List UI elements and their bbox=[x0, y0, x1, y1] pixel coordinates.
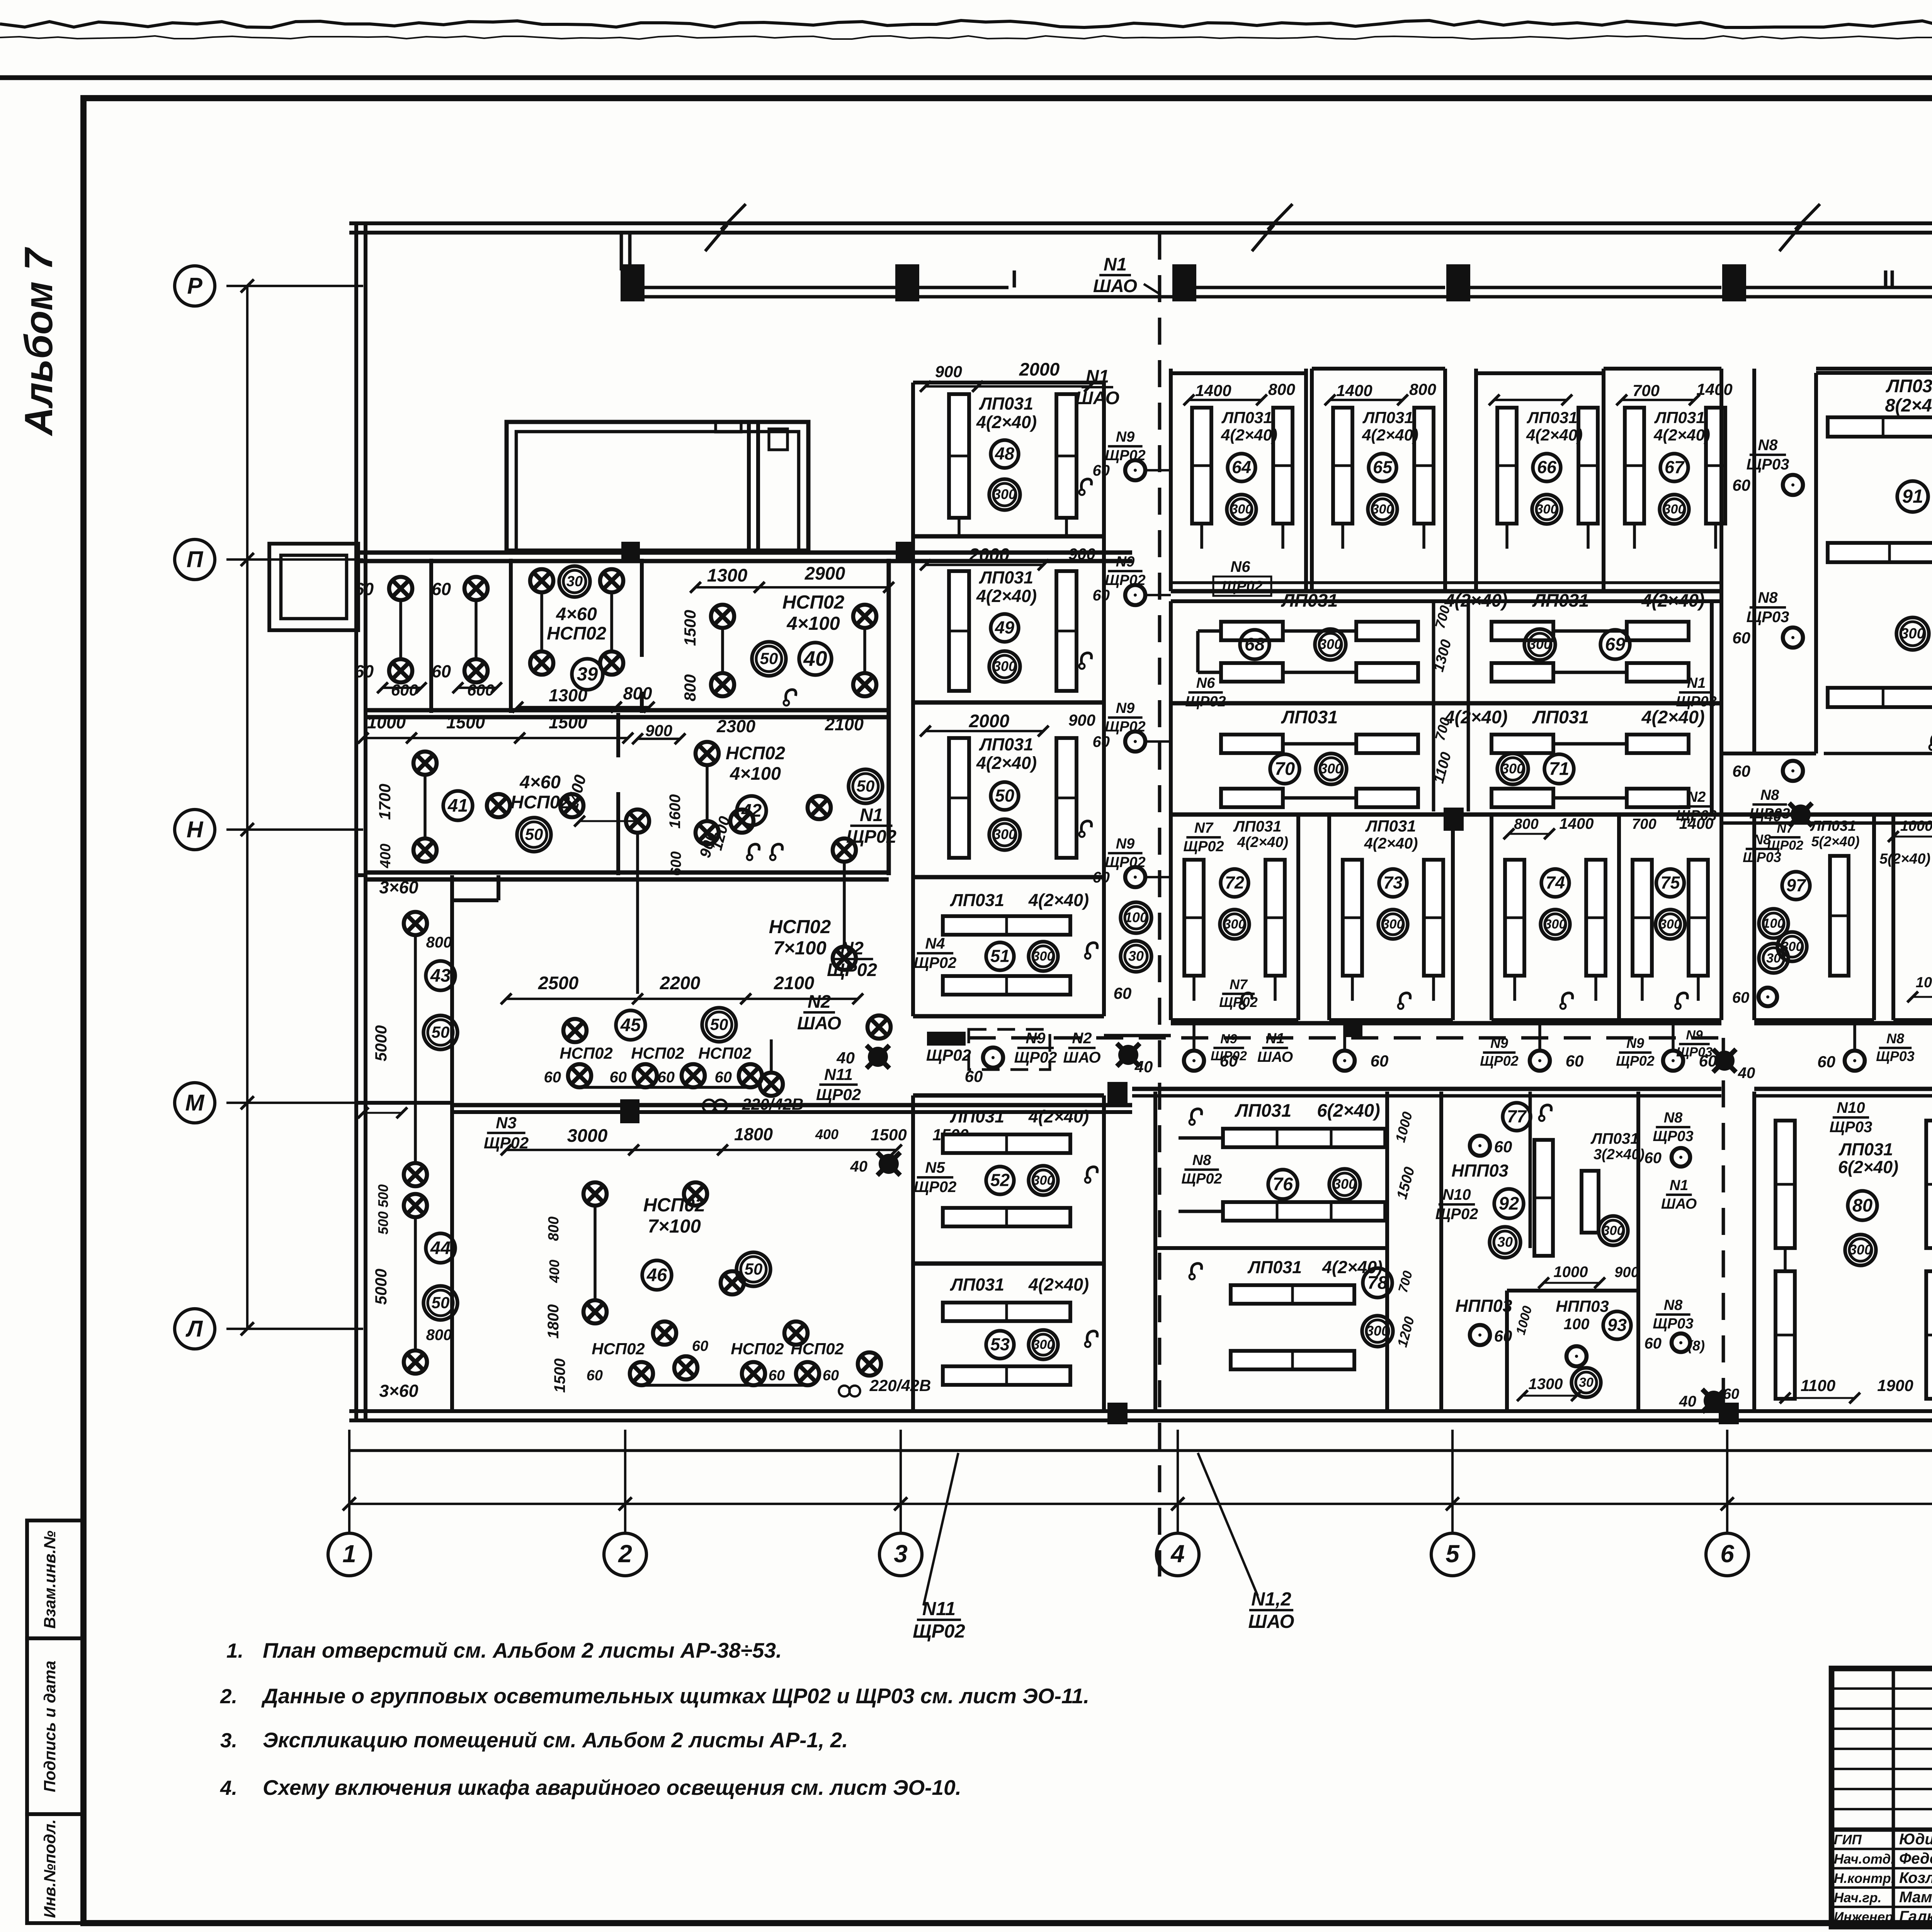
wall column bbox=[1172, 264, 1196, 301]
svg-text:71: 71 bbox=[1549, 758, 1569, 779]
svg-text:2: 2 bbox=[618, 1540, 632, 1568]
svg-text:План отверстий см. Альбом 2: План отверстий см. Альбом 2 листы АР-38÷… bbox=[263, 1638, 782, 1662]
row axis П bbox=[226, 558, 363, 561]
svg-text:69: 69 bbox=[1605, 634, 1625, 654]
room 46 lamps lower bbox=[583, 1300, 607, 1323]
corridor right lamps N8 bbox=[1845, 1051, 1865, 1071]
svg-text:N7: N7 bbox=[1230, 976, 1248, 992]
svg-text:30: 30 bbox=[1128, 948, 1144, 964]
svg-text:ЛП031: ЛП031 bbox=[950, 1275, 1004, 1294]
svg-text:3×60: 3×60 bbox=[379, 878, 418, 897]
svg-text:ЛП031: ЛП031 bbox=[1281, 707, 1338, 727]
svg-text:4(2×40): 4(2×40) bbox=[976, 412, 1037, 432]
room 48 fixtures bbox=[949, 394, 969, 518]
svg-text:5(2×40): 5(2×40) bbox=[1879, 851, 1930, 867]
svg-text:N9: N9 bbox=[1686, 1028, 1703, 1043]
svg-text:300: 300 bbox=[1544, 917, 1566, 932]
row axis М bbox=[226, 1102, 363, 1104]
svg-text:4×100: 4×100 bbox=[786, 613, 840, 634]
svg-text:300: 300 bbox=[1501, 761, 1524, 777]
svg-text:ЛП031: ЛП031 bbox=[950, 890, 1004, 910]
svg-text:ЩР02: ЩР02 bbox=[816, 1085, 861, 1104]
svg-text:Нач.гр.: Нач.гр. bbox=[1834, 1890, 1881, 1905]
svg-text:50: 50 bbox=[857, 777, 875, 795]
axis 1 bbox=[348, 1430, 350, 1533]
svg-text:60: 60 bbox=[965, 1067, 983, 1085]
svg-text:300: 300 bbox=[993, 658, 1016, 674]
svg-text:30: 30 bbox=[1579, 1375, 1594, 1390]
svg-text:78: 78 bbox=[1367, 1272, 1388, 1293]
svg-text:800: 800 bbox=[426, 1327, 452, 1344]
svg-text:ЛП031: ЛП031 bbox=[979, 735, 1033, 754]
left margin stamp boxes bbox=[27, 1520, 83, 1638]
room 40 lamps bbox=[711, 605, 734, 628]
room 68/69 top area bbox=[1169, 603, 1173, 703]
corridor lower wall bbox=[1132, 1087, 1721, 1091]
svg-text:80: 80 bbox=[1852, 1195, 1872, 1215]
entrance vestibule on row П bbox=[269, 544, 358, 630]
svg-text:49: 49 bbox=[995, 618, 1014, 638]
svg-text:400: 400 bbox=[546, 1260, 562, 1283]
vent chamber top-left double wall bbox=[507, 422, 808, 551]
svg-text:7×100: 7×100 bbox=[648, 1216, 701, 1237]
svg-text:65: 65 bbox=[1373, 457, 1393, 477]
svg-text:40: 40 bbox=[1134, 1058, 1153, 1076]
svg-text:Юдин: Юдин bbox=[1899, 1831, 1932, 1848]
wall left block right boundary x2300 bbox=[886, 713, 891, 875]
svg-text:N6: N6 bbox=[1230, 558, 1250, 575]
svg-text:НСП02: НСП02 bbox=[731, 1340, 784, 1358]
svg-text:60: 60 bbox=[1732, 762, 1750, 780]
room 77 bbox=[1529, 1092, 1532, 1248]
svg-text:N1: N1 bbox=[1266, 1031, 1285, 1047]
svg-text:1400: 1400 bbox=[1679, 815, 1714, 832]
duct band connector wall bbox=[620, 233, 623, 270]
svg-text:60: 60 bbox=[1645, 1335, 1662, 1352]
svg-text:1400: 1400 bbox=[1195, 381, 1231, 400]
svg-text:4.: 4. bbox=[220, 1777, 237, 1799]
room 76 walls bbox=[1153, 1092, 1157, 1411]
svg-text:1: 1 bbox=[342, 1540, 356, 1568]
svg-text:Схему включения шкафа авари: Схему включения шкафа аварийного освещен… bbox=[263, 1776, 961, 1799]
svg-text:700: 700 bbox=[1632, 816, 1656, 832]
svg-text:93: 93 bbox=[1607, 1315, 1627, 1335]
svg-text:2000: 2000 bbox=[969, 544, 1010, 565]
svg-text:60: 60 bbox=[658, 1069, 675, 1086]
axis 2 bbox=[624, 1430, 626, 1533]
svg-text:600: 600 bbox=[467, 681, 494, 699]
svg-text:НСП02: НСП02 bbox=[769, 917, 831, 937]
rooms 72-75 bottom walls bbox=[1171, 1018, 1298, 1022]
wall row П bbox=[356, 550, 1132, 554]
svg-text:ЛП031: ЛП031 bbox=[1365, 817, 1416, 835]
svg-text:ЛП031: ЛП031 bbox=[1810, 818, 1856, 834]
svg-text:НПП03: НПП03 bbox=[1556, 1297, 1609, 1315]
svg-text:ЛП031: ЛП031 bbox=[1526, 408, 1577, 427]
svg-text:НСП02: НСП02 bbox=[560, 1044, 613, 1062]
svg-text:60: 60 bbox=[1494, 1327, 1512, 1345]
svg-text:2200: 2200 bbox=[660, 973, 701, 993]
corridor dashed feeder N9 bbox=[969, 1036, 1723, 1040]
wall room 97 left bbox=[1752, 815, 1756, 1020]
svg-text:4(2×40): 4(2×40) bbox=[1362, 426, 1418, 444]
svg-text:70: 70 bbox=[1275, 758, 1295, 779]
svg-text:92: 92 bbox=[1499, 1193, 1519, 1213]
svg-text:4(2×40): 4(2×40) bbox=[1444, 707, 1507, 727]
svg-text:4(2×40): 4(2×40) bbox=[1364, 835, 1418, 852]
svg-text:4(2×40): 4(2×40) bbox=[1028, 1107, 1089, 1126]
svg-text:1400: 1400 bbox=[1336, 381, 1372, 400]
panel ЩР02 black bbox=[927, 1032, 966, 1046]
svg-text:100: 100 bbox=[1763, 916, 1785, 931]
svg-text:6: 6 bbox=[1720, 1540, 1734, 1568]
svg-text:НСП02: НСП02 bbox=[592, 1340, 645, 1358]
top wall break marks bbox=[705, 204, 746, 251]
svg-text:300: 300 bbox=[993, 486, 1016, 502]
title block signature grid bbox=[1892, 1668, 1895, 1927]
svg-text:ЩР02: ЩР02 bbox=[1219, 994, 1258, 1010]
svg-text:ЩР03: ЩР03 bbox=[1653, 1316, 1693, 1332]
svg-text:300: 300 bbox=[1320, 761, 1343, 777]
svg-text:1000: 1000 bbox=[367, 713, 406, 732]
svg-text:Галкин: Галкин bbox=[1899, 1908, 1932, 1925]
wall column bbox=[895, 264, 919, 301]
svg-text:1500: 1500 bbox=[681, 610, 699, 646]
room 51 walls bbox=[911, 877, 915, 1016]
svg-text:2300: 2300 bbox=[716, 716, 755, 736]
svg-text:60: 60 bbox=[1645, 1150, 1662, 1167]
svg-text:N1: N1 bbox=[1670, 1177, 1689, 1194]
wall room91 top bbox=[1816, 367, 1932, 371]
junction pillars bbox=[1107, 1082, 1128, 1106]
svg-text:40: 40 bbox=[850, 1158, 868, 1175]
svg-text:7×100: 7×100 bbox=[773, 938, 827, 959]
svg-text:75: 75 bbox=[1660, 873, 1680, 893]
axis 6 bbox=[1726, 1430, 1728, 1533]
svg-text:48: 48 bbox=[995, 444, 1014, 464]
svg-text:300: 300 bbox=[1231, 502, 1253, 517]
svg-text:60: 60 bbox=[587, 1367, 603, 1384]
svg-text:Н.контр.: Н.контр. bbox=[1834, 1871, 1895, 1886]
svg-text:900: 900 bbox=[1068, 711, 1095, 729]
pillar on wall 45-46 bbox=[620, 1099, 639, 1123]
svg-text:ЛП031: ЛП031 bbox=[1233, 818, 1282, 835]
svg-text:N11: N11 bbox=[922, 1599, 956, 1619]
svg-text:1100: 1100 bbox=[1801, 1376, 1835, 1395]
svg-text:Мамренко: Мамренко bbox=[1899, 1889, 1932, 1906]
svg-text:Инв.№подл.: Инв.№подл. bbox=[41, 1819, 59, 1918]
duct band lower wall bbox=[621, 295, 1932, 299]
svg-text:4: 4 bbox=[1170, 1540, 1185, 1568]
band bottom wall 39 bbox=[366, 708, 889, 712]
svg-text:ЩР02: ЩР02 bbox=[1435, 1206, 1478, 1223]
wall column bbox=[621, 264, 645, 301]
svg-text:N1: N1 bbox=[860, 804, 883, 825]
svg-text:3.: 3. bbox=[220, 1729, 237, 1752]
svg-text:ЛП031: ЛП031 bbox=[1654, 408, 1705, 427]
left outer wall bbox=[354, 223, 358, 1420]
svg-text:1500: 1500 bbox=[446, 713, 485, 732]
svg-text:4(2×40): 4(2×40) bbox=[1653, 426, 1710, 444]
svg-text:2100: 2100 bbox=[774, 973, 815, 993]
svg-text:60: 60 bbox=[610, 1069, 627, 1086]
svg-text:ШАО: ШАО bbox=[1248, 1611, 1294, 1632]
svg-text:ГИП: ГИП bbox=[1834, 1832, 1862, 1847]
svg-text:300: 300 bbox=[993, 827, 1016, 842]
svg-text:60: 60 bbox=[1732, 476, 1750, 494]
svg-text:1.: 1. bbox=[226, 1639, 243, 1662]
svg-text:1000: 1000 bbox=[1554, 1264, 1588, 1281]
svg-text:Л: Л bbox=[185, 1316, 203, 1342]
svg-text:100: 100 bbox=[1124, 910, 1148, 925]
axis 4 bbox=[1177, 1430, 1179, 1533]
sheet outer top line bbox=[0, 75, 1932, 80]
svg-text:3×60: 3×60 bbox=[379, 1381, 418, 1401]
row axis Л bbox=[226, 1328, 363, 1330]
room 45 bottom lamps row bbox=[568, 1064, 591, 1087]
corridor walls x=4455..4540 bbox=[1752, 369, 1756, 753]
room B lamps bbox=[464, 577, 488, 600]
axis 3 bbox=[900, 1430, 902, 1533]
svg-text:300: 300 bbox=[1536, 502, 1558, 517]
svg-text:N9: N9 bbox=[1116, 554, 1135, 570]
svg-text:800: 800 bbox=[426, 934, 452, 951]
svg-text:60: 60 bbox=[1093, 587, 1110, 604]
svg-text:N2: N2 bbox=[840, 938, 864, 958]
svg-text:N9: N9 bbox=[1220, 1032, 1237, 1046]
svg-text:300: 300 bbox=[1224, 917, 1246, 932]
svg-text:П: П bbox=[187, 547, 204, 572]
wall corridor x4540 upper bbox=[1752, 369, 1756, 753]
svg-text:ШАО: ШАО bbox=[1093, 276, 1137, 296]
svg-text:N10: N10 bbox=[1837, 1099, 1865, 1116]
svg-text:2500: 2500 bbox=[538, 973, 579, 993]
shaft walls 65|66 bbox=[1444, 373, 1447, 591]
axis 5 bbox=[1451, 1430, 1454, 1533]
svg-text:60: 60 bbox=[1093, 462, 1110, 479]
svg-text:N8: N8 bbox=[1758, 589, 1778, 606]
svg-text:1300: 1300 bbox=[1529, 1376, 1563, 1393]
svg-text:ШАО: ШАО bbox=[797, 1013, 841, 1033]
svg-text:N9: N9 bbox=[1116, 700, 1135, 716]
svg-text:39: 39 bbox=[577, 664, 598, 685]
svg-text:Нач.отд.: Нач.отд. bbox=[1834, 1852, 1895, 1867]
svg-text:50: 50 bbox=[710, 1015, 728, 1034]
svg-text:72: 72 bbox=[1225, 873, 1244, 893]
svg-text:300: 300 bbox=[1382, 917, 1404, 932]
svg-text:ЛП031: ЛП031 bbox=[1221, 408, 1272, 427]
svg-text:60: 60 bbox=[354, 579, 374, 599]
svg-text:НСП02: НСП02 bbox=[631, 1044, 684, 1062]
svg-text:300: 300 bbox=[1602, 1223, 1624, 1238]
svg-text:ШАО: ШАО bbox=[1661, 1196, 1697, 1212]
svg-text:60: 60 bbox=[1371, 1052, 1389, 1070]
svg-text:40: 40 bbox=[1738, 1065, 1755, 1082]
svg-text:N3: N3 bbox=[496, 1114, 517, 1132]
svg-text:46: 46 bbox=[646, 1264, 667, 1285]
svg-text:НСП02: НСП02 bbox=[643, 1195, 706, 1216]
svg-text:67: 67 bbox=[1665, 457, 1685, 477]
room 73 bbox=[1343, 860, 1362, 976]
svg-text:(8): (8) bbox=[1688, 1338, 1705, 1354]
svg-text:700: 700 bbox=[1633, 381, 1660, 400]
room 97 walls bbox=[1752, 815, 1756, 1020]
svg-text:Экспликацию помещений см. А: Экспликацию помещений см. Альбом 2 листы… bbox=[263, 1728, 848, 1752]
svg-text:800: 800 bbox=[623, 684, 652, 703]
svg-text:4×100: 4×100 bbox=[730, 763, 781, 784]
svg-text:800: 800 bbox=[1514, 816, 1538, 832]
svg-text:500: 500 bbox=[375, 1211, 391, 1235]
svg-text:300: 300 bbox=[1528, 636, 1551, 652]
svg-text:60: 60 bbox=[354, 662, 374, 681]
room 39 lux 30 bbox=[559, 566, 590, 597]
svg-text:N8: N8 bbox=[1758, 437, 1778, 454]
wall 68/70 bbox=[1171, 701, 1721, 705]
svg-text:800: 800 bbox=[546, 1216, 562, 1241]
svg-text:N9: N9 bbox=[1116, 836, 1135, 852]
corridor lux circles bbox=[1121, 902, 1151, 933]
wall verticals bottom right block bbox=[1752, 1092, 1756, 1411]
room 92 НПП03 bbox=[1439, 1092, 1443, 1411]
wall column bbox=[1722, 264, 1746, 301]
svg-text:300: 300 bbox=[1333, 1176, 1356, 1192]
svg-text:1000: 1000 bbox=[1900, 818, 1932, 834]
left band partitions bbox=[429, 559, 433, 713]
svg-text:N7: N7 bbox=[1194, 820, 1214, 836]
svg-text:1900: 1900 bbox=[1877, 1376, 1913, 1395]
svg-text:ЛП031: ЛП031 bbox=[950, 1107, 1004, 1126]
svg-text:220/42В: 220/42В bbox=[869, 1376, 931, 1395]
room 50 walls bbox=[911, 702, 915, 877]
svg-text:ЩР03: ЩР03 bbox=[1653, 1128, 1693, 1145]
svg-text:60: 60 bbox=[432, 579, 451, 599]
svg-text:ЩР02: ЩР02 bbox=[1183, 838, 1224, 855]
svg-text:2900: 2900 bbox=[804, 563, 845, 583]
svg-text:N2: N2 bbox=[1687, 789, 1706, 805]
svg-text:1400: 1400 bbox=[1560, 815, 1594, 832]
svg-text:ЩР02: ЩР02 bbox=[484, 1134, 529, 1152]
svg-text:ЩР02: ЩР02 bbox=[1222, 578, 1262, 595]
svg-text:60: 60 bbox=[1093, 733, 1110, 750]
room 72 bbox=[1184, 860, 1204, 976]
svg-text:1700: 1700 bbox=[376, 784, 394, 820]
svg-text:300: 300 bbox=[1781, 939, 1803, 954]
svg-text:N11: N11 bbox=[824, 1065, 853, 1083]
rooms 64-67 top walls bbox=[1171, 371, 1306, 375]
strip divider bbox=[356, 1101, 452, 1105]
svg-text:900: 900 bbox=[1614, 1264, 1639, 1281]
row axis datum line bbox=[246, 286, 248, 1329]
svg-text:800: 800 bbox=[1409, 380, 1436, 398]
svg-text:N1: N1 bbox=[1104, 254, 1127, 274]
vent chamber internal wall bbox=[747, 422, 751, 551]
room A lamps bbox=[389, 577, 412, 600]
svg-text:2000: 2000 bbox=[1019, 359, 1060, 379]
svg-text:52: 52 bbox=[990, 1170, 1010, 1190]
svg-text:60: 60 bbox=[715, 1069, 732, 1086]
svg-text:ЩР02: ЩР02 bbox=[1616, 1053, 1655, 1069]
svg-text:2000: 2000 bbox=[969, 711, 1010, 731]
svg-text:60: 60 bbox=[692, 1338, 708, 1354]
svg-text:N6: N6 bbox=[1196, 675, 1215, 691]
svg-text:300: 300 bbox=[1032, 949, 1054, 964]
svg-text:N1: N1 bbox=[1687, 675, 1706, 691]
svg-text:5000: 5000 bbox=[372, 1269, 390, 1304]
room 41 bbox=[413, 752, 437, 775]
svg-text:50: 50 bbox=[432, 1023, 450, 1041]
svg-text:4(2×40): 4(2×40) bbox=[1028, 890, 1089, 910]
wall column bbox=[1446, 264, 1470, 301]
dark lamp corridor right bbox=[1714, 1051, 1735, 1071]
svg-text:ЩР02: ЩР02 bbox=[914, 954, 957, 971]
svg-text:66: 66 bbox=[1537, 457, 1557, 477]
svg-text:НПП03: НПП03 bbox=[1455, 1296, 1512, 1316]
svg-text:1300: 1300 bbox=[549, 685, 587, 705]
band 41-42 bottom wall bbox=[366, 870, 889, 874]
room 45 lamps lower bbox=[563, 1019, 587, 1042]
feeder crossing lines mid bbox=[1104, 1034, 1171, 1037]
svg-text:ЛП031: ЛП031 bbox=[1247, 1257, 1302, 1277]
room 52 walls bbox=[911, 1095, 915, 1264]
svg-text:Федотов: Федотов bbox=[1899, 1850, 1932, 1867]
svg-text:300: 300 bbox=[1319, 636, 1342, 652]
svg-text:74: 74 bbox=[1546, 873, 1565, 893]
svg-text:51: 51 bbox=[990, 946, 1010, 966]
rooms 72-75 top wall bbox=[1171, 812, 1721, 816]
svg-text:60: 60 bbox=[1494, 1138, 1512, 1156]
svg-text:4(2×40): 4(2×40) bbox=[976, 753, 1037, 773]
wall corridor bottom y1950 segment 4540-4700 bbox=[1754, 752, 1816, 755]
svg-text:Р: Р bbox=[187, 273, 202, 299]
svg-text:40: 40 bbox=[803, 646, 827, 670]
svg-text:300: 300 bbox=[1900, 626, 1925, 642]
svg-text:6(2×40): 6(2×40) bbox=[1317, 1100, 1380, 1121]
svg-text:60: 60 bbox=[1093, 869, 1110, 886]
pillar on row P wall left bbox=[621, 542, 640, 560]
svg-text:N8: N8 bbox=[1664, 1297, 1683, 1313]
svg-text:800: 800 bbox=[681, 674, 699, 701]
svg-text:2.: 2. bbox=[220, 1685, 237, 1708]
walls H band verticals right bbox=[1874, 813, 1893, 816]
svg-text:50: 50 bbox=[995, 786, 1014, 806]
svg-text:60: 60 bbox=[1114, 984, 1132, 1002]
svg-text:44: 44 bbox=[430, 1237, 451, 1258]
signature rows bbox=[1832, 1848, 1932, 1850]
svg-text:53: 53 bbox=[990, 1335, 1010, 1354]
svg-text:1400: 1400 bbox=[1696, 380, 1732, 398]
svg-text:ЩР02: ЩР02 bbox=[827, 959, 877, 980]
room 93 walls bbox=[1507, 1289, 1638, 1293]
svg-text:91: 91 bbox=[1902, 486, 1923, 507]
svg-text:N2: N2 bbox=[808, 991, 831, 1012]
svg-text:ЛП031: ЛП031 bbox=[1532, 707, 1589, 727]
svg-text:43: 43 bbox=[430, 965, 451, 985]
svg-text:6(2×40): 6(2×40) bbox=[1838, 1157, 1898, 1177]
svg-text:45: 45 bbox=[620, 1014, 641, 1035]
room 45 top-left wall bbox=[452, 898, 498, 902]
room 91 walls bbox=[1814, 373, 1818, 753]
svg-text:77: 77 bbox=[1507, 1107, 1527, 1126]
svg-text:3000: 3000 bbox=[567, 1125, 608, 1146]
bottom outer wall bbox=[349, 1409, 1932, 1413]
svg-text:40: 40 bbox=[836, 1049, 855, 1067]
room 39 lamps bbox=[530, 569, 553, 592]
corridor upper wall bbox=[1171, 1021, 1721, 1025]
svg-text:300: 300 bbox=[1032, 1173, 1054, 1188]
svg-text:ЩР02: ЩР02 bbox=[926, 1046, 971, 1064]
svg-text:ЛП031: ЛП031 bbox=[1362, 408, 1413, 427]
svg-text:60: 60 bbox=[432, 662, 451, 681]
